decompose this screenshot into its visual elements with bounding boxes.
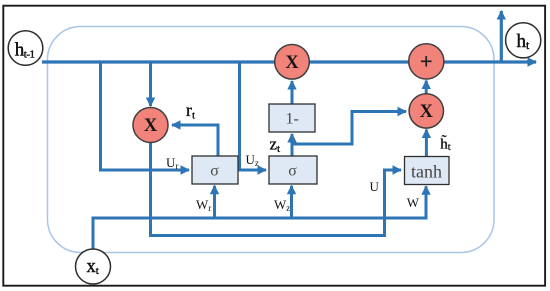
op plus adder circle	[409, 44, 444, 79]
wire: output branch up to top arrow	[500, 11, 503, 62]
svg-text:σ: σ	[210, 163, 219, 180]
svg-text:Wz: Wz	[274, 197, 290, 213]
svg-text:Uz: Uz	[246, 152, 259, 168]
GRU cell rounded boundary	[48, 27, 495, 253]
wire: Uz branch from main line into sigma-z left	[240, 62, 267, 170]
box sigma-r (reset gate)	[192, 156, 238, 184]
svg-text:σ: σ	[288, 163, 297, 180]
box 1-	[269, 104, 315, 132]
wire: x_t up and right along bottom (W path), up into tanh bottom	[93, 186, 426, 250]
svg-text:U: U	[370, 179, 380, 194]
wire: main h(t-1) horizontal line	[42, 60, 536, 63]
svg-text:X: X	[144, 116, 158, 136]
wire: Wr branch up into sigma-r bottom	[213, 186, 216, 218]
wire: Wz branch up into sigma-z bottom	[290, 186, 293, 218]
op X1 reset multiply circle	[133, 108, 168, 143]
svg-text:1-: 1-	[286, 111, 299, 128]
svg-text:Wr: Wr	[196, 197, 211, 213]
op X3 multiply right	[409, 94, 443, 128]
wire: Ur branch from main line into sigma-r left	[101, 62, 190, 170]
svg-text:X: X	[420, 102, 434, 122]
node h_t output circle	[506, 23, 541, 58]
svg-text:rt: rt	[186, 100, 195, 122]
svg-text:zt: zt	[270, 135, 281, 156]
svg-text:Ur: Ur	[166, 155, 178, 171]
wire: r_t from sigma-r top into X1 right	[172, 125, 218, 156]
node h(t-1) input circle	[8, 31, 43, 66]
svg-text:tanh: tanh	[411, 162, 442, 182]
wire: h(t-1) drop into X1 top	[149, 62, 152, 106]
svg-text:h̃t: h̃t	[440, 135, 451, 153]
svg-text:W: W	[407, 195, 420, 210]
box sigma-z (update gate)	[269, 156, 317, 184]
node x_t input circle	[76, 249, 111, 284]
wire: X3 output up into plus bottom	[425, 81, 428, 94]
op X2 multiply on main line	[275, 45, 310, 80]
box tanh	[405, 157, 450, 185]
wire: X1 output down and right, up into tanh left (U path)	[151, 141, 402, 236]
wire: z_t from sigma-z top into 1- bottom	[291, 134, 294, 156]
svg-text:X: X	[285, 53, 299, 73]
wire: z_t branch to X3 left	[292, 112, 406, 145]
wire: 1- output up into X2 bottom	[291, 81, 294, 104]
wire: tanh output up into X3 bottom	[425, 130, 428, 157]
